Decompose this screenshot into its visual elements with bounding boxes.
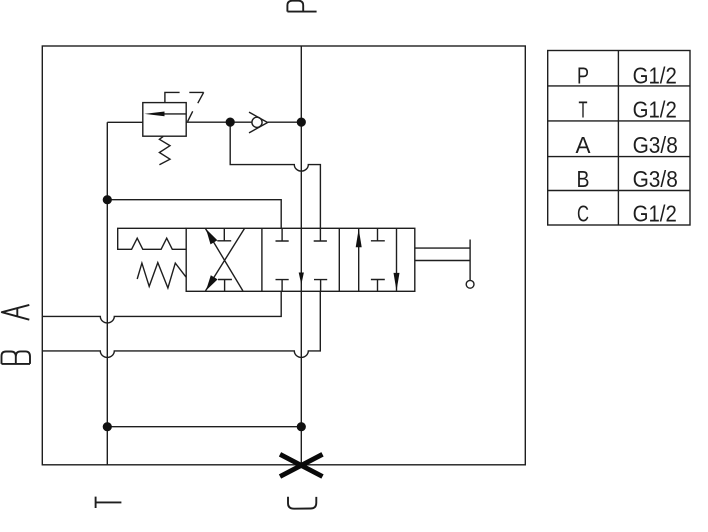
node junction dot on T line	[103, 195, 112, 204]
DV1 right down arrowhead	[394, 273, 400, 291]
lever actuator	[415, 248, 470, 260]
label B (rotated)	[2, 351, 31, 364]
node junction dot T bottom	[103, 422, 112, 431]
wire bottom connector T to C	[107, 426, 301, 428]
DV1 left position crossed arrows	[206, 229, 245, 291]
svg-text:C: C	[577, 201, 589, 227]
svg-text:T: T	[579, 97, 588, 123]
svg-text:B: B	[577, 166, 590, 192]
DV1 centre position closed ports T	[276, 228, 289, 241]
label P (rotated)	[287, 1, 316, 12]
wire node to check valve	[230, 121, 252, 123]
node junction dot C bottom	[297, 422, 306, 431]
DV1 lower spring	[137, 263, 186, 288]
relief valve pilot dashed line	[165, 92, 204, 121]
relief valve RV1	[143, 103, 186, 137]
svg-text:G3/8: G3/8	[633, 132, 678, 158]
check valve CV1	[252, 117, 262, 127]
DV1 right position closed ports T	[371, 228, 385, 241]
svg-text:G1/2: G1/2	[633, 62, 677, 88]
DV1 left position top closed port T	[217, 228, 231, 241]
svg-text:G1/2: G1/2	[633, 97, 677, 123]
svg-text:G3/8: G3/8	[633, 166, 678, 192]
relief valve spring	[159, 136, 170, 164]
DV1 right position flow arrows	[358, 229, 360, 291]
DV1 crossed arrowhead upper	[206, 229, 217, 244]
DV1 right up arrowhead	[356, 229, 362, 248]
label C (rotated)	[288, 497, 316, 509]
svg-text:P: P	[577, 62, 589, 88]
wire relief valve left to T line	[107, 121, 143, 123]
svg-text:A: A	[576, 132, 592, 158]
wire T node to valve port branch	[107, 200, 281, 229]
wire relief valve right to node	[186, 121, 230, 123]
DV1 crossed arrowhead lower	[206, 275, 218, 290]
label A (rotated)	[2, 305, 30, 320]
block border	[42, 46, 525, 465]
wire check valve to P node	[268, 121, 302, 123]
port table	[548, 51, 690, 226]
node junction dot relief/check	[226, 118, 235, 127]
wire port A line with hop over T line	[42, 291, 281, 323]
DV1 left position bottom closed port T	[218, 280, 232, 292]
plugged port X at C	[280, 454, 323, 476]
svg-text:G1/2: G1/2	[633, 201, 677, 227]
wire T drain vertical	[106, 122, 108, 465]
wire bypass branch down and right with hop over P line	[230, 122, 320, 228]
relief valve arrow	[144, 112, 164, 117]
DV1 centre down arrowhead	[299, 273, 304, 285]
directional valve DV1 body	[186, 228, 415, 291]
wire port B line with hops over T and C lines	[42, 291, 320, 357]
wire P supply vertical through valve to C	[300, 46, 302, 465]
DV1 spring box	[118, 228, 187, 249]
node junction dot on P line	[297, 118, 306, 127]
label T (rotated)	[96, 497, 122, 508]
